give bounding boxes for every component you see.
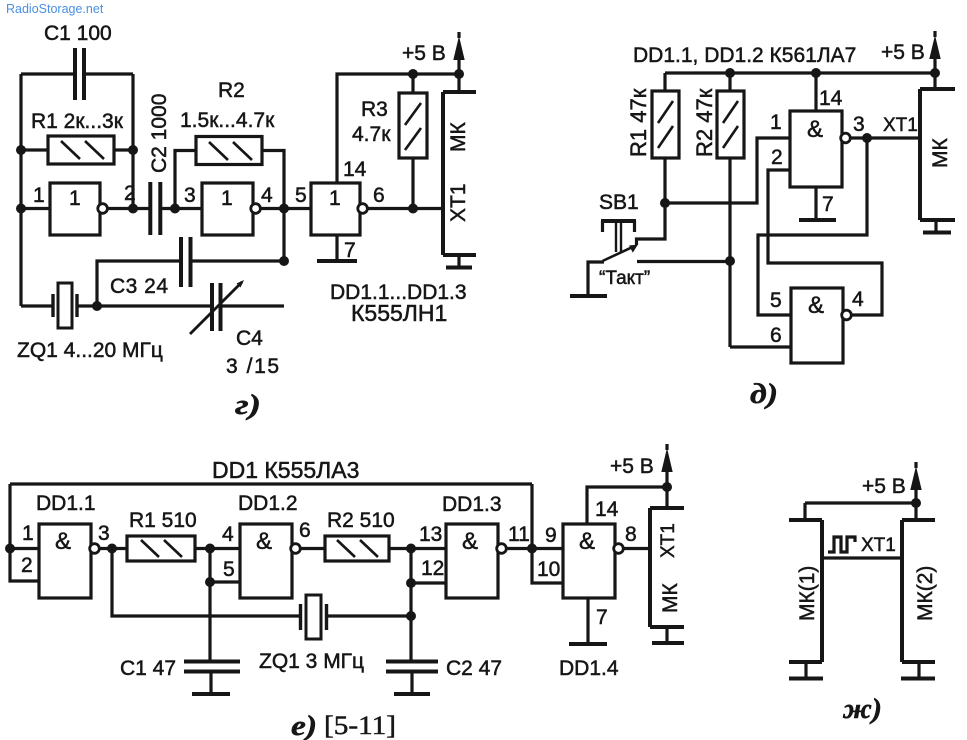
svg-text:DD1.3: DD1.3 [442,493,502,516]
node junction pin13 [406,544,416,554]
svg-text:&: & [579,528,595,555]
wire +5V drops to connectors [805,503,916,520]
svg-text:7: 7 [344,239,356,262]
inverter DD1.2 [202,183,253,235]
SB1 left contact to ground [588,262,604,294]
svg-text:6: 6 [770,324,782,347]
svg-text:“Такт”: “Такт” [599,268,650,289]
svg-text:R1 2к...3к: R1 2к...3к [31,110,124,133]
svg-text:7: 7 [822,193,834,216]
wire pin 14 to +5V [587,487,667,524]
svg-text:14: 14 [343,158,367,181]
node junction +5V arrow [930,68,940,78]
svg-text:R2 47к: R2 47к [692,88,717,157]
gate DD1.1 [39,524,91,598]
svg-text:9: 9 [545,524,557,547]
svg-text:4: 4 [261,184,273,207]
svg-text:&: & [807,116,823,143]
wire feedback output3 to pin 5 [758,138,867,315]
connector MK bracket [443,92,476,255]
node junction 5 [279,204,289,214]
svg-text:12: 12 [421,557,444,580]
node junction right R1 [128,145,138,155]
svg-text:5: 5 [770,289,782,312]
wire Такт to R2 [637,260,730,263]
svg-text:DD1.4: DD1.4 [559,657,619,680]
wire R2 loop [175,151,284,209]
svg-text:2: 2 [124,182,136,205]
svg-text:4.7к: 4.7к [352,123,391,146]
wire down to C1 [208,582,211,660]
svg-text:[5-11]: [5-11] [324,711,396,740]
inverter DD1.1 [50,183,100,235]
power +5 В arrow [457,32,460,74]
svg-text:4: 4 [852,288,864,311]
node junction pin1 [5,544,15,554]
svg-text:C3 24: C3 24 [110,275,168,298]
capacitor C3 [181,237,191,287]
power +5 В arrow [933,31,936,73]
crystal ZQ1 [53,294,77,317]
svg-text:R3: R3 [361,98,388,121]
wire pins 4-5 tie [210,549,240,583]
svg-text:МК: МК [447,122,470,152]
connector MK bracket [920,89,955,220]
node junction C3 right [279,256,289,266]
wire pin 14 to +5V rail [337,74,459,183]
wire crystal branch [21,304,213,307]
wire output 3 to connector [850,136,920,139]
node junction 11 [527,544,537,554]
wire pin 7 down [814,187,817,218]
svg-text:C1 47: C1 47 [120,657,176,680]
svg-text:&: & [55,528,71,555]
wire C2 to node 3 [160,207,202,210]
connector XT1 contact [457,255,460,266]
wire pin 14 [814,73,817,111]
svg-text:R1 510: R1 510 [129,509,197,532]
gate DD1.3 [446,524,498,598]
wire pins 13-12 tie [411,549,446,584]
pulse symbol [828,537,855,552]
svg-text:&: & [462,528,478,555]
svg-text:2: 2 [21,554,33,577]
node junction arrow [911,498,921,508]
svg-text:3 /15: 3 /15 [226,355,279,378]
connector MK(1) contact [804,662,807,677]
svg-text:5: 5 [295,184,307,207]
node junction +5V [662,482,672,492]
connector MK(2) contact [917,662,920,677]
wire pin 2 feedback [768,170,882,315]
SB1 button cap [601,219,636,223]
svg-text:1: 1 [22,522,34,545]
wire inverter1 output to C2 [108,207,150,210]
wire output 6 to connector [368,207,443,210]
svg-text:SB1: SB1 [599,191,639,214]
wire R1 to pin 4 [195,547,240,550]
svg-text:7: 7 [596,606,608,629]
node junction R2/Такт [725,256,735,266]
svg-text:4: 4 [222,523,234,546]
node junction crystal right [92,301,102,311]
power +5 В arrow [665,444,668,487]
node junction pin5 [205,577,215,587]
wire XT1 link [822,556,902,559]
node junction left R1 [16,145,26,155]
capacitor C2 [386,662,438,672]
node junction R3 bottom [408,204,418,214]
capacitor C2 [150,182,160,235]
wire C3 branch [97,209,284,307]
gate DD1.1 [790,111,842,187]
wire left column [19,74,22,306]
resistor R1 [127,536,195,561]
svg-text:&: & [256,528,272,555]
svg-text:C4: C4 [236,327,263,350]
svg-text:C2 1000: C2 1000 [148,94,171,173]
svg-text:МК: МК [659,583,682,613]
svg-text:3: 3 [184,184,196,207]
ground C1 [209,672,212,693]
crystal ZQ1 [301,604,327,630]
wire +5V to connector top [933,73,936,89]
svg-text:14: 14 [819,87,843,110]
capacitor C1 [184,662,240,672]
svg-text:13: 13 [419,523,442,546]
ground SB1 [570,294,607,298]
wire pin 6 to R2 bottom [730,345,791,348]
svg-text:DD1.1: DD1.1 [36,492,96,515]
svg-text:ZQ1 4...20 МГц: ZQ1 4...20 МГц [17,339,163,362]
node junction +5V arrow [454,69,464,79]
wire +5V to connector top [665,487,668,508]
wire output 4 to node 5 [261,207,311,210]
svg-text:DD1 К555ЛА3: DD1 К555ЛА3 [212,457,359,483]
node junction pin12 [406,578,416,588]
wire output 3 to R1 [99,547,127,550]
svg-text:XT1: XT1 [658,523,679,558]
wire output 6 to R2 [300,547,325,550]
SB1 stem [616,221,621,252]
connector XT1 contact [665,627,668,641]
power +5 В arrow [914,462,917,503]
SB1 moving contact [603,247,634,261]
svg-text:11: 11 [508,523,530,546]
svg-text:8: 8 [625,523,637,546]
node junction R2 top [725,68,735,78]
wire R2 leads [728,73,731,347]
connector MK(2) bracket [902,520,935,662]
svg-text:C1 100: C1 100 [44,22,112,45]
svg-text:3: 3 [853,113,865,136]
node junction R1 bottom [660,198,670,208]
wire pin 1 to R1/SB1 junction [665,138,790,203]
gate DD1.4 [563,524,615,598]
node junction 3 [170,204,180,214]
svg-text:МК: МК [929,138,952,168]
svg-text:е): е) [291,711,317,740]
svg-text:&: & [808,292,824,319]
capacitor C4 variable [212,283,221,331]
svg-text:1: 1 [329,187,341,210]
connector XT1 contact [934,220,937,231]
resistor R3 [399,93,427,158]
svg-text:DD1.2: DD1.2 [238,492,298,515]
node junction crystal right [406,611,416,621]
SB1 right contact [637,203,666,245]
capacitor C1 [75,48,84,100]
svg-text:R1 47к: R1 47к [626,88,651,157]
wire output 8 to connector [623,547,650,550]
wire feedback column [530,484,533,549]
wire R2 to pin 13 [389,547,446,550]
svg-text:1: 1 [69,187,81,210]
resistor R2 [196,137,262,165]
svg-text:1: 1 [221,187,233,210]
resistor R2 [717,91,744,158]
wire R3 leads [411,74,414,209]
wire pin1 to inverter DD1.1 [21,207,50,210]
svg-text:6: 6 [373,184,385,207]
svg-text:RadioStorage.net: RadioStorage.net [6,2,104,16]
svg-text:XT1: XT1 [861,535,896,556]
resistor R1 [48,136,114,164]
svg-text:+5 В: +5 В [862,475,906,498]
svg-text:R2 510: R2 510 [327,509,395,532]
wire +5V rail [805,501,916,504]
svg-text:14: 14 [595,498,619,521]
wire pins 9-10 tie [532,549,563,584]
svg-text:+5 В: +5 В [610,455,654,478]
wire pin 7 down [335,235,338,259]
node junction output 2 [128,204,138,214]
node junction pin4 [205,544,215,554]
svg-text:1: 1 [770,111,782,134]
wire R1 leads [663,73,666,203]
svg-text:R2: R2 [218,79,245,102]
wire C1 top branch [21,74,133,209]
svg-text:3: 3 [98,522,110,545]
ground C2 [410,672,413,693]
resistor R2 [325,536,389,561]
node junction output 3 [862,133,872,143]
connector MK(1) bracket [789,520,822,662]
wire +5V rail [665,71,935,74]
wire down to crystal node and C2 [409,583,412,660]
resistor R1 [652,91,679,158]
node junction pin1 [16,204,26,214]
ground inverter3 [317,259,357,263]
wire R1 leads [21,148,133,151]
gate DD1.2 [240,524,292,598]
svg-text:МК(1): МК(1) [796,566,819,621]
wire crystal branch [112,549,411,617]
ground gate1 [799,218,836,222]
svg-text:XT1: XT1 [883,115,918,136]
svg-text:+5 В: +5 В [402,42,446,65]
svg-text:+5 В: +5 В [881,41,925,64]
svg-text:1: 1 [33,184,45,207]
svg-text:МК(2): МК(2) [914,566,937,621]
gate DD1.2 [791,288,843,363]
svg-text:1.5к...4.7к: 1.5к...4.7к [180,109,275,132]
svg-text:5: 5 [223,558,235,581]
wire output 11 to pin 9 [506,547,563,550]
svg-text:6: 6 [299,519,311,542]
wire left column to pins 1,2 [10,484,39,581]
svg-text:10: 10 [537,558,560,581]
inverter DD1.3 [311,183,360,235]
node junction +5V R3 [408,69,418,79]
svg-text:DD1.1, DD1.2 К561ЛА7: DD1.1, DD1.2 К561ЛА7 [633,44,856,67]
svg-text:г): г) [235,390,261,421]
ground DD1.4 [569,642,607,646]
wire pin 7 down [586,598,589,642]
wire C4 branch [221,304,284,307]
wire +5V to connector top [457,74,460,92]
svg-text:C2 47: C2 47 [446,657,502,680]
svg-text:ZQ1 3 МГц: ZQ1 3 МГц [259,650,364,673]
svg-text:ж): ж) [842,694,882,725]
connector MK bracket [650,508,684,627]
svg-text:2: 2 [771,146,783,169]
wire feedback top rail [10,482,532,485]
svg-text:XT1: XT1 [447,183,470,222]
svg-text:д): д) [750,379,778,410]
node junction pin14 top [811,68,821,78]
svg-text:К555ЛН1: К555ЛН1 [351,300,447,326]
node junction 3 [107,544,117,554]
